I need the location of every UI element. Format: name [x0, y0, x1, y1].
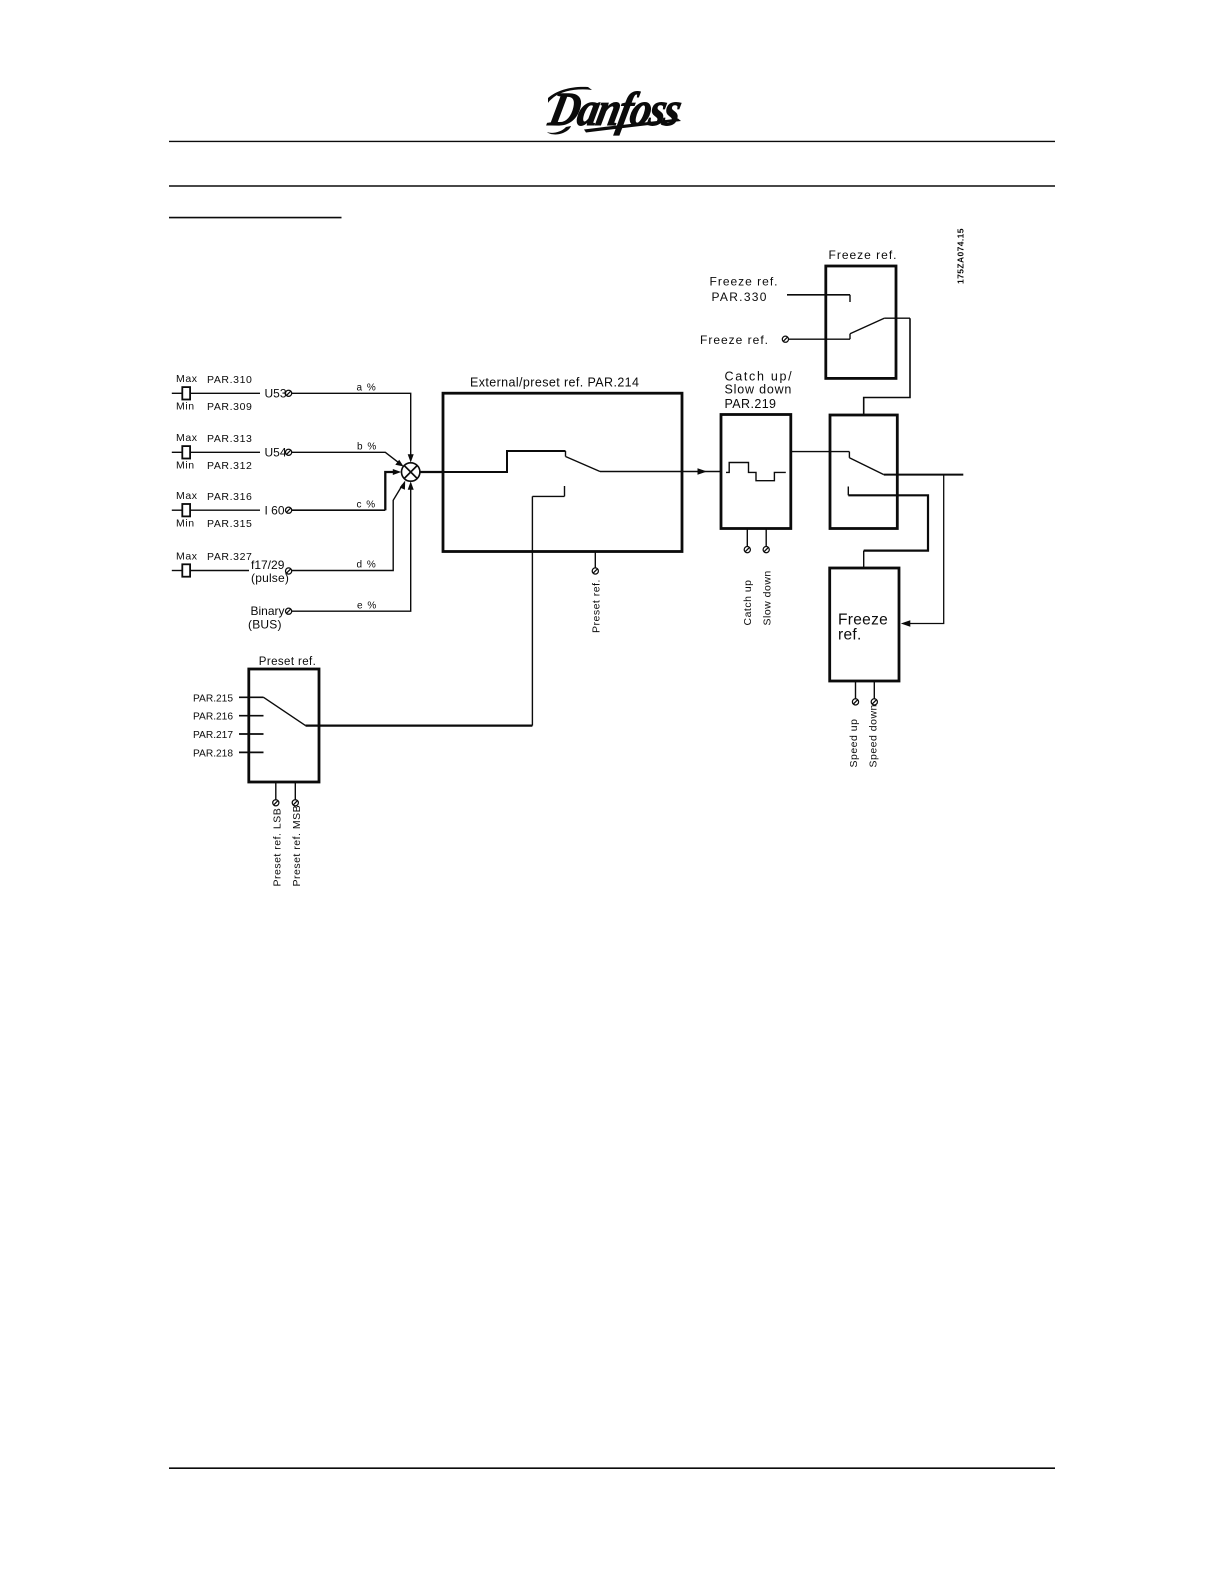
wire freeze switch output [884, 317, 910, 319]
svg-text:Max: Max [176, 373, 198, 385]
svg-text:PAR.315: PAR.315 [207, 518, 252, 530]
switch arm catch-up/freeze [849, 458, 883, 475]
svg-text:(pulse): (pulse) [251, 571, 289, 585]
svg-text:Slow down: Slow down [725, 382, 793, 396]
title Catch up/Slow down PAR.219 [725, 370, 794, 412]
label Max PAR.310 [176, 373, 252, 386]
switch arm PAR.214 [566, 457, 601, 472]
svg-text:d %: d % [357, 560, 377, 571]
wire PAR.215 input [239, 696, 264, 698]
svg-text:PAR.330: PAR.330 [712, 290, 768, 304]
block External/preset ref. PAR.214 [443, 393, 682, 551]
stub Preset ref. MSB [294, 782, 296, 800]
terminal label Binary (BUS) [248, 604, 285, 632]
terminal I60 [286, 507, 292, 513]
svg-text:Min: Min [176, 518, 195, 530]
stub Speed down terminal [873, 681, 875, 699]
svg-text:175ZA074.15: 175ZA074.15 [955, 228, 965, 284]
limiter (min/max) U53 [182, 387, 190, 399]
svg-text:Preset ref. MSB: Preset ref. MSB [291, 805, 303, 887]
contact tick upper [565, 451, 567, 457]
svg-text:(BUS): (BUS) [248, 618, 282, 632]
label Freeze ref. PAR.330 [710, 275, 779, 305]
svg-text:I 60: I 60 [265, 504, 285, 518]
header rule 1 [169, 140, 1055, 142]
summing junction [402, 463, 420, 481]
terminal Freeze ref. [782, 336, 788, 342]
wire limiter to f17/29 [190, 570, 249, 572]
block Catch up/Slow down PAR.219 [721, 415, 791, 529]
stub Preset ref. terminal [594, 552, 596, 568]
svg-text:c %: c % [357, 500, 377, 511]
wire b% [292, 452, 401, 464]
wire lower contact to freeze block (bold) [848, 495, 928, 550]
svg-text:PAR.310: PAR.310 [207, 374, 252, 386]
label Min PAR.315 [176, 518, 252, 531]
label Freeze ref. (in box) [838, 612, 888, 644]
wire switch input step (bold) [444, 451, 566, 472]
limiter (min/max) U54 [182, 446, 190, 458]
wire switch output [600, 471, 682, 473]
contact tick lower [564, 486, 566, 496]
terminal Preset ref. LSB [273, 800, 279, 806]
svg-text:PAR.309: PAR.309 [207, 401, 252, 413]
wire PAR.217 input [239, 733, 264, 735]
Danfoss logo [544, 82, 687, 135]
contact tick PAR.330 [849, 295, 851, 302]
terminal Speed up [852, 699, 858, 705]
heading underline [169, 217, 342, 219]
wire catch-up to switch block [791, 451, 850, 453]
svg-text:Speed up: Speed up [848, 719, 860, 768]
svg-text:PAR.217: PAR.217 [193, 730, 233, 741]
header rule 2 [169, 185, 1055, 187]
terminal Speed down [871, 699, 877, 705]
svg-text:PAR.219: PAR.219 [725, 397, 777, 411]
svg-text:External/preset ref. PAR.214: External/preset ref. PAR.214 [470, 376, 639, 390]
wire c% (selected, bold) [292, 509, 386, 511]
wire output branch to freeze block [907, 475, 944, 624]
svg-text:Slow down: Slow down [761, 570, 773, 625]
terminal Preset ref. MSB [292, 800, 298, 806]
svg-text:PAR.312: PAR.312 [207, 460, 252, 472]
block freeze switch [830, 415, 897, 529]
svg-text:Freeze ref.: Freeze ref. [829, 248, 898, 262]
wire input f17/29 [172, 570, 183, 572]
stub into freeze block top [863, 551, 865, 568]
waveform symbol [726, 463, 786, 481]
svg-text:Min: Min [176, 460, 195, 472]
block Freeze ref. switch [826, 266, 896, 378]
svg-text:a %: a % [357, 383, 377, 394]
terminal U53 [286, 390, 292, 396]
svg-text:Preset ref.: Preset ref. [591, 579, 603, 633]
contact tick Freeze ref. [849, 334, 851, 339]
terminal Preset ref. [592, 568, 598, 574]
svg-text:Speed down: Speed down [868, 704, 880, 767]
switch arm Preset ref. [264, 697, 306, 725]
svg-text:f17/29: f17/29 [251, 558, 285, 572]
terminal Slow down [763, 547, 769, 553]
stub Catch up terminal [746, 529, 748, 547]
svg-text:b %: b % [357, 442, 377, 453]
wire junction to external box (bold) [420, 471, 444, 473]
wire input U54 [172, 451, 183, 453]
wire limiter to U54 [190, 451, 260, 453]
stub Slow down terminal [765, 529, 767, 547]
wire preset feed vertical [531, 496, 533, 725]
contact tick switch block lower [847, 487, 849, 496]
wire input I60 [172, 509, 183, 511]
terminal Catch up [744, 547, 750, 553]
label Min PAR.309 [176, 401, 252, 414]
stub Preset ref. LSB [275, 782, 277, 800]
footer rule [169, 1467, 1055, 1469]
block Preset ref. [249, 669, 319, 782]
label Max PAR.327 [176, 551, 252, 564]
wire resulting reference output (bold) [884, 474, 964, 476]
svg-text:Preset ref. LSB: Preset ref. LSB [272, 808, 284, 887]
wire preset output (bold) [306, 724, 533, 726]
label Max PAR.316 [176, 490, 252, 503]
limiter (min/max) I60 [182, 504, 190, 516]
wire input U53 [172, 392, 183, 394]
terminal label f17/29 (pulse) [251, 558, 289, 585]
svg-text:Max: Max [176, 432, 198, 444]
svg-text:ref.: ref. [838, 626, 862, 643]
svg-text:Catch up: Catch up [742, 579, 754, 625]
svg-text:Max: Max [176, 551, 198, 563]
terminal Binary [286, 608, 292, 614]
wire d% [292, 485, 403, 571]
wire limiter to I60 [190, 509, 260, 511]
svg-text:Max: Max [176, 490, 198, 502]
svg-text:U54: U54 [265, 446, 287, 460]
switch arm Freeze ref. [850, 318, 884, 334]
svg-text:PAR.216: PAR.216 [193, 712, 233, 723]
wire PAR.330 into box [787, 294, 850, 296]
label Max PAR.313 [176, 432, 252, 445]
labels PAR.215 PAR.216 PAR.217 PAR.218 [193, 693, 233, 759]
wire a% [292, 393, 411, 458]
wire lower contact [532, 495, 564, 497]
stub Speed up terminal [855, 681, 857, 699]
svg-text:PAR.218: PAR.218 [193, 748, 233, 759]
svg-text:PAR.327: PAR.327 [207, 551, 252, 563]
wire PAR.218 input [239, 751, 264, 753]
wire Freeze ref. into box [789, 338, 851, 340]
wire PAR.216 input [239, 715, 264, 717]
terminal U54 [286, 449, 292, 455]
block Freeze ref. (lower) [830, 568, 899, 681]
svg-text:PAR.215: PAR.215 [193, 693, 233, 704]
svg-text:Preset ref.: Preset ref. [259, 656, 316, 668]
svg-text:U53: U53 [265, 387, 287, 401]
label Min PAR.312 [176, 460, 252, 473]
wire e% [292, 486, 411, 612]
terminal f17/29 [286, 568, 292, 574]
wire freeze ref. to switch block [864, 318, 910, 415]
svg-text:PAR.316: PAR.316 [207, 491, 252, 503]
limiter (max) f17/29 [182, 564, 190, 576]
svg-text:Freeze ref.: Freeze ref. [710, 275, 779, 289]
svg-text:PAR.313: PAR.313 [207, 433, 252, 445]
svg-text:e %: e % [357, 601, 377, 612]
svg-text:Binary: Binary [251, 604, 285, 618]
wire limiter to U53 [190, 392, 260, 394]
contact tick switch block upper [848, 452, 850, 458]
wire to catch-up block [682, 471, 721, 473]
svg-text:Min: Min [176, 401, 195, 413]
svg-text:Freeze ref.: Freeze ref. [700, 333, 769, 347]
